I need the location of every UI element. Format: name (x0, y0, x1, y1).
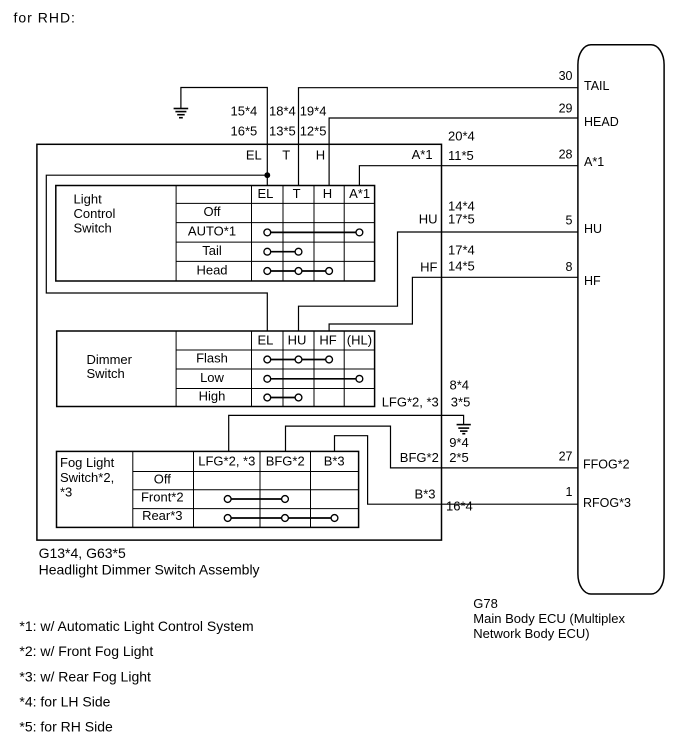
switch S2 contacts: Flash row (264, 356, 333, 363)
svg-text:EL: EL (246, 147, 262, 162)
svg-text:27: 27 (559, 449, 573, 463)
net labels above light control switch (231, 104, 327, 163)
svg-text:HU: HU (288, 332, 307, 347)
switch S3: fog light switch table (57, 451, 359, 527)
svg-text:High: High (199, 389, 226, 404)
ECU connector body G78 (578, 45, 664, 594)
svg-text:16*4: 16*4 (446, 499, 473, 514)
svg-text:BFG*2: BFG*2 (266, 453, 305, 468)
pin numbers on ECU (559, 69, 573, 499)
svg-text:G78: G78 (473, 596, 498, 611)
svg-text:15*4: 15*4 (231, 104, 258, 119)
svg-text:17*4: 17*4 (448, 243, 475, 258)
svg-text:Off: Off (154, 471, 171, 486)
svg-text:*1: w/ Automatic Light Control: *1: w/ Automatic Light Control System (19, 618, 253, 634)
switch S3 contacts: Front*2 row (224, 496, 288, 503)
ground near fog light switch (457, 425, 471, 434)
svg-text:LFG*2, *3: LFG*2, *3 (198, 453, 255, 468)
svg-text:H: H (316, 147, 325, 162)
svg-text:29: 29 (559, 102, 573, 116)
net label LFG with pin codes (382, 377, 471, 409)
svg-text:HF: HF (319, 332, 336, 347)
svg-text:HU: HU (419, 212, 438, 227)
svg-text:*2: w/ Front Fog Light: *2: w/ Front Fog Light (19, 643, 153, 659)
wire B*3 to RFOG*3 pin 1 (335, 436, 578, 505)
svg-text:Light: Light (74, 192, 103, 207)
svg-text:20*4: 20*4 (448, 128, 475, 143)
wire EL branch to dimmer switch EL column (46, 175, 267, 331)
svg-text:Front*2: Front*2 (141, 490, 184, 505)
net label HU with pin codes (419, 198, 475, 226)
wire H to HEAD pin 29 (329, 118, 578, 186)
svg-text:TAIL: TAIL (584, 79, 610, 93)
svg-text:A*1: A*1 (584, 155, 604, 169)
svg-text:3*5: 3*5 (451, 395, 471, 410)
svg-text:2*5: 2*5 (449, 450, 469, 465)
svg-text:A*1: A*1 (412, 147, 433, 162)
switch S1 labels (74, 186, 371, 277)
svg-text:Network Body ECU): Network Body ECU) (473, 626, 589, 641)
wire EL: ground to light control switch EL column (181, 88, 267, 186)
caption: assembly name (39, 545, 260, 578)
node: EL junction dot (264, 172, 270, 178)
svg-text:T: T (282, 147, 290, 162)
svg-text:FFOG*2: FFOG*2 (583, 458, 630, 472)
switch S2 labels (87, 332, 373, 403)
svg-text:AUTO*1: AUTO*1 (188, 223, 236, 238)
svg-text:T: T (293, 186, 301, 201)
caption: ECU name (473, 596, 625, 641)
switch S1 contacts: Tail row (264, 248, 302, 255)
svg-text:LFG*2, *3: LFG*2, *3 (382, 395, 439, 410)
svg-text:*3: w/ Rear Fog Light: *3: w/ Rear Fog Light (19, 668, 151, 684)
svg-text:8: 8 (566, 260, 573, 274)
svg-text:Off: Off (203, 204, 220, 219)
svg-text:*4: for LH Side: *4: for LH Side (19, 694, 110, 710)
svg-text:Switch: Switch (74, 221, 112, 236)
footnotes (19, 618, 253, 735)
svg-text:Main Body ECU (Multiplex: Main Body ECU (Multiplex (473, 611, 625, 626)
wire HF to pin 8 (329, 277, 578, 331)
wire HU to pin 5 (299, 232, 578, 331)
wire A*1 to pin 28 (359, 166, 577, 186)
svg-text:30: 30 (559, 69, 573, 83)
switch S2: dimmer switch table (57, 331, 375, 407)
svg-text:*5: for RH Side: *5: for RH Side (19, 719, 113, 735)
svg-text:13*5: 13*5 (269, 123, 296, 138)
svg-text:Flash: Flash (196, 351, 228, 366)
svg-text:Rear*3: Rear*3 (142, 508, 182, 523)
switch S2 contacts: High row (264, 394, 302, 401)
svg-text:HU: HU (584, 222, 602, 236)
wire LFG to ground (229, 415, 464, 451)
wire BFG to FFOG*2 pin 27 (286, 426, 578, 468)
net label BFG with pin codes (400, 435, 469, 465)
svg-text:HF: HF (420, 259, 437, 274)
net label A*1 with pin codes (412, 128, 475, 163)
svg-text:8*4: 8*4 (450, 377, 470, 392)
svg-text:17*5: 17*5 (448, 212, 475, 227)
svg-text:BFG*2: BFG*2 (400, 450, 439, 465)
svg-text:Tail: Tail (202, 243, 222, 258)
switch S3 labels (60, 453, 345, 523)
switch S1 contacts: Head row (264, 268, 333, 275)
svg-text:5: 5 (566, 214, 573, 228)
svg-text:G13*4, G63*5: G13*4, G63*5 (39, 545, 126, 561)
pin labels inside ECU (583, 79, 631, 510)
svg-text:EL: EL (257, 186, 273, 201)
svg-text:14*5: 14*5 (448, 258, 475, 273)
svg-text:28: 28 (559, 147, 573, 161)
svg-text:9*4: 9*4 (449, 435, 469, 450)
svg-text:19*4: 19*4 (300, 104, 327, 119)
svg-text:B*3: B*3 (324, 453, 345, 468)
svg-text:11*5: 11*5 (448, 148, 474, 163)
svg-text:HF: HF (584, 274, 601, 288)
svg-text:Headlight Dimmer Switch Assemb: Headlight Dimmer Switch Assembly (39, 562, 260, 578)
svg-text:18*4: 18*4 (269, 104, 296, 119)
svg-text:A*1: A*1 (349, 186, 370, 201)
ground G1 top (174, 109, 189, 118)
svg-text:EL: EL (257, 332, 273, 347)
svg-text:(HL): (HL) (347, 332, 372, 347)
switch S3 contacts: Rear*3 row (224, 515, 338, 522)
net label HF with pin codes (420, 243, 475, 275)
svg-text:12*5: 12*5 (300, 123, 327, 138)
svg-text:*3: *3 (60, 485, 72, 500)
switch S1: light control switch table (56, 186, 375, 282)
svg-text:Control: Control (74, 206, 116, 221)
wire T to TAIL pin 30 (299, 88, 578, 186)
outer box: G13/G63 headlight dimmer switch assembly (37, 144, 442, 540)
svg-text:Dimmer: Dimmer (87, 352, 133, 367)
svg-text:Low: Low (200, 370, 224, 385)
svg-text:HEAD: HEAD (584, 115, 619, 129)
svg-text:B*3: B*3 (415, 486, 436, 501)
svg-text:for RHD:: for RHD: (14, 10, 76, 26)
svg-text:Switch: Switch (87, 366, 125, 381)
svg-text:1: 1 (566, 485, 573, 499)
svg-text:16*5: 16*5 (231, 123, 258, 138)
svg-text:RFOG*3: RFOG*3 (583, 496, 631, 510)
svg-text:Head: Head (196, 262, 227, 277)
svg-text:Fog Light: Fog Light (60, 455, 115, 470)
net label B*3 with pin code 16*4 (415, 486, 473, 513)
svg-text:H: H (323, 186, 332, 201)
switch S1 contacts: AUTO*1 row (264, 229, 363, 236)
svg-text:Switch*2,: Switch*2, (60, 470, 114, 485)
switch S2 contacts: Low row (264, 375, 363, 382)
